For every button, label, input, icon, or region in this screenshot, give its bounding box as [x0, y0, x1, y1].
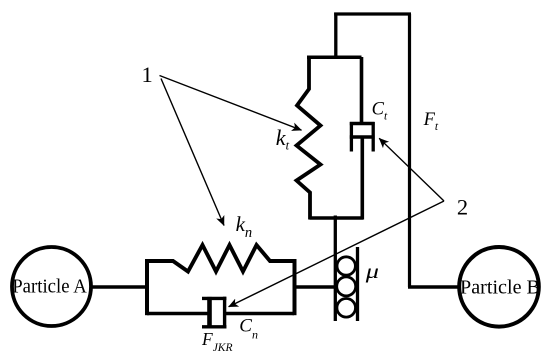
wire Ft to particle B	[408, 285, 460, 289]
damper Ct rod bottom	[360, 137, 364, 220]
wire tangential top hook vertical	[334, 13, 337, 58]
spring kt	[297, 57, 321, 220]
wire to damper Cn	[147, 312, 208, 316]
friction slider roller 3	[337, 299, 356, 318]
wire from damper Cn to right bar	[226, 312, 294, 316]
friction slider right plate	[356, 247, 359, 321]
svg-text:kn: kn	[236, 212, 253, 241]
svg-text:FJKR: FJKR	[201, 329, 233, 354]
damper Ct piston plate	[350, 135, 375, 138]
particle B	[459, 247, 540, 327]
svg-text:Ct: Ct	[372, 100, 388, 123]
pointer line 1 to spring kn	[161, 79, 224, 226]
wire from particle A to normal branch	[91, 285, 149, 289]
wire from right bar to friction slider	[294, 285, 336, 289]
spring kn	[147, 245, 294, 272]
particle A	[12, 247, 91, 326]
pointer line 2 to damper Ct	[379, 138, 444, 201]
friction slider roller 1	[337, 257, 355, 275]
friction slider roller 2	[337, 277, 356, 296]
svg-text:1: 1	[141, 62, 152, 87]
svg-text:Particle B: Particle B	[460, 277, 540, 299]
friction slider left plate (with stem from tangential branch)	[334, 216, 337, 322]
damper Cn piston plate	[207, 297, 212, 328]
node left junction bar	[145, 259, 149, 315]
svg-text:μ: μ	[364, 262, 379, 283]
node right junction bar	[293, 259, 297, 315]
svg-text:2: 2	[457, 194, 468, 219]
damper Cn cylinder	[202, 297, 226, 329]
node tangential bottom bar	[310, 216, 364, 220]
wire tangential top hook horizontal	[334, 12, 411, 15]
node tangential top bar	[307, 56, 362, 60]
damper Ct rod top	[360, 57, 364, 124]
svg-text:Ft: Ft	[423, 110, 439, 133]
svg-text:kt: kt	[276, 125, 290, 153]
pointer line 1 to spring kt	[160, 76, 302, 131]
svg-text:Particle A: Particle A	[12, 276, 87, 298]
damper Ct cylinder	[350, 122, 375, 152]
wire Ft vertical	[408, 14, 411, 287]
pointer line 2 to damper Cn	[229, 201, 444, 307]
svg-text:Cn: Cn	[239, 315, 258, 341]
